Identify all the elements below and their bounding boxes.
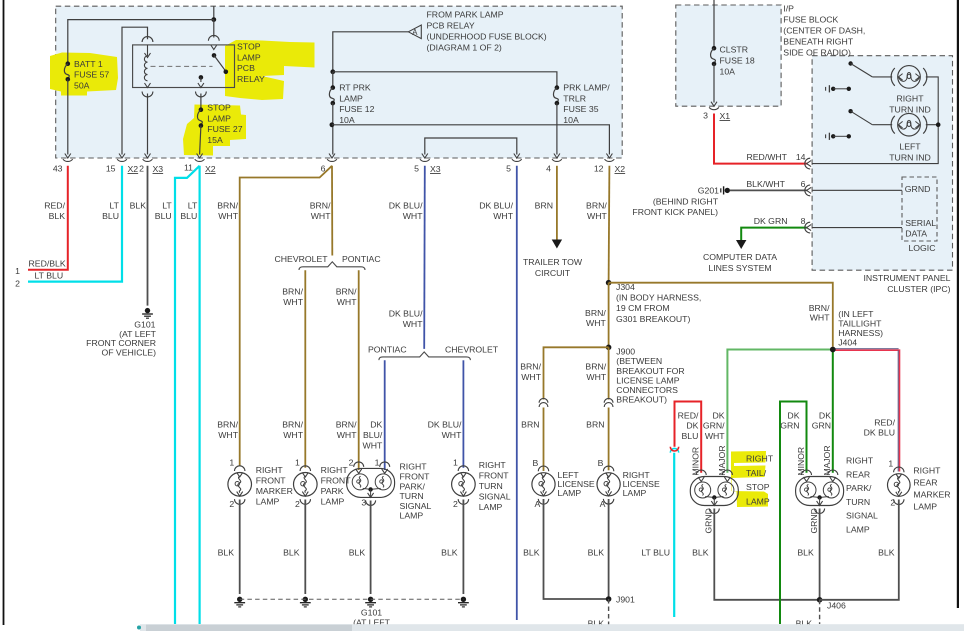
wire: fuse 18 down to pin 3: [713, 64, 715, 103]
svg-text:WHT: WHT: [311, 211, 331, 221]
svg-text:FRONT KICK PANEL): FRONT KICK PANEL): [632, 207, 718, 217]
lamp LEFT TURN IND: [891, 116, 895, 134]
svg-text:FUSE 35: FUSE 35: [563, 104, 598, 114]
svg-text:GRND: GRND: [809, 508, 819, 533]
svg-text:B: B: [598, 458, 604, 468]
svg-text:PCB: PCB: [237, 63, 255, 73]
highlight RIGHT TAIL/STOP LAMP: [731, 451, 768, 507]
svg-text:DK: DK: [370, 420, 382, 430]
lamp RIGHT FRONT MARKER LAMP: [234, 466, 244, 471]
svg-text:PCB RELAY: PCB RELAY: [427, 21, 475, 31]
svg-text:GRN: GRN: [812, 421, 831, 431]
svg-text:BLK: BLK: [692, 547, 709, 557]
wire LT BLU: pin 11 jog branch: [175, 166, 200, 624]
svg-text:LAMP: LAMP: [558, 488, 582, 498]
dual lamp RIGHT REAR PARK/TURN SIGNAL LAMP: [796, 477, 844, 506]
svg-text:RED/BLK: RED/BLK: [29, 258, 66, 268]
pin 15 X2: [119, 154, 125, 159]
wire DK BLU/WHT: pin 5 X3 down to brand split 2: [423, 166, 426, 349]
svg-text:RELAY: RELAY: [237, 74, 265, 84]
svg-text:15: 15: [106, 164, 116, 174]
svg-text:BREAKOUT): BREAKOUT): [616, 395, 667, 405]
svg-text:BLK: BLK: [49, 211, 66, 221]
svg-text:STOP: STOP: [237, 42, 261, 52]
wire DK GRN/WHT: J404 to stop lamp major: [727, 350, 832, 473]
pin 4: [554, 154, 560, 159]
svg-text:8: 8: [801, 216, 806, 226]
svg-text:FROM PARK LAMP: FROM PARK LAMP: [427, 10, 504, 20]
svg-text:X2: X2: [128, 164, 139, 174]
wire RED/WHT: pin 3 to IPC pin 14: [714, 114, 807, 164]
svg-text:A: A: [600, 499, 606, 509]
svg-text:HARNESS): HARNESS): [838, 328, 883, 338]
wire: pin 8 to SERIAL DATA logic: [812, 227, 902, 229]
junction to PRK LAMP/TRLR fuse branch: [330, 69, 335, 74]
fuse F18 CLSTR 10A: [712, 46, 717, 51]
svg-text:G101: G101: [361, 608, 382, 618]
svg-text:RIGHT: RIGHT: [746, 454, 774, 464]
wire RED/DK BLU: connector up and over to stop lamp minor: [675, 402, 702, 473]
svg-text:MINOR: MINOR: [796, 447, 806, 476]
svg-text:WHT: WHT: [810, 313, 830, 323]
svg-text:(BEHIND RIGHT: (BEHIND RIGHT: [653, 197, 719, 207]
svg-text:BLU: BLU: [681, 431, 698, 441]
svg-text:PARK/: PARK/: [846, 483, 872, 493]
svg-text:2: 2: [15, 278, 20, 288]
svg-text:(BETWEEN: (BETWEEN: [616, 356, 662, 366]
wire: BATT fuse down to pin 43: [67, 79, 69, 154]
svg-text:GRN: GRN: [780, 421, 799, 431]
ground (front marker): [237, 597, 242, 602]
svg-text:1: 1: [375, 458, 380, 468]
svg-text:11: 11: [184, 163, 193, 173]
svg-text:LAMP: LAMP: [237, 52, 261, 62]
pin 43: [65, 154, 71, 159]
svg-text:RT PRK: RT PRK: [339, 83, 371, 93]
svg-text:BLK: BLK: [349, 547, 366, 557]
svg-text:LT: LT: [188, 201, 198, 211]
svg-text:FRONT: FRONT: [400, 472, 431, 482]
wire BLK: front marker to ground bus: [239, 500, 241, 595]
lamp RIGHT FRONT TURN SIGNAL LAMP: [458, 466, 468, 471]
svg-text:TAILLIGHT: TAILLIGHT: [838, 319, 882, 329]
junction at feed split: [211, 17, 216, 22]
svg-text:WHT: WHT: [363, 440, 383, 450]
wire BLK: rear park/turn ground to J406: [819, 509, 821, 600]
svg-text:LT: LT: [162, 201, 172, 211]
wire BRN/WHT: J900 branch to left license lamp: [544, 347, 609, 399]
brace split 2: [379, 352, 471, 360]
wire BRN: connector to left license lamp: [543, 408, 545, 472]
IPC right turn indicator switch: [848, 61, 852, 65]
svg-text:B: B: [533, 458, 539, 468]
svg-text:A: A: [535, 499, 541, 509]
svg-text:CLSTR: CLSTR: [720, 44, 748, 54]
svg-text:J406: J406: [827, 601, 846, 611]
svg-text:BLK: BLK: [130, 201, 147, 211]
page left border: [3, 0, 5, 625]
wire BRN/WHT: J900 down to right license: [608, 347, 610, 399]
wire LT BLU: pin 11 straight down: [199, 166, 201, 624]
svg-text:1: 1: [229, 458, 234, 468]
svg-text:LAMP: LAMP: [339, 93, 363, 103]
actuator symbol left: [825, 134, 827, 138]
svg-text:I/P: I/P: [783, 3, 794, 13]
svg-text:SIGNAL: SIGNAL: [479, 491, 511, 501]
highlight STOP LAMP PCB RELAY: [225, 40, 315, 100]
wire: branch to fuse 35: [333, 72, 557, 86]
wire BLK: J406 off-page dashed: [819, 600, 821, 624]
wire BLK: pin 2 to ground G101: [147, 166, 149, 306]
wire: lower branch to pin 12: [332, 125, 610, 155]
lamp RIGHT FRONT PARK LAMP: [300, 466, 310, 471]
fuse F27 STOP LAMP 15A: [199, 107, 204, 112]
ground (front park): [303, 597, 308, 602]
wire BLK: J901 off-page (dashed): [608, 599, 610, 626]
svg-text:19 CM FROM: 19 CM FROM: [616, 303, 670, 313]
svg-text:FUSE 18: FUSE 18: [720, 55, 755, 65]
svg-text:BLK: BLK: [797, 547, 814, 557]
svg-text:(IN LEFT: (IN LEFT: [838, 309, 874, 319]
svg-text:14: 14: [796, 152, 806, 162]
wire: fuse12 down to pin 6 with lower branch: [332, 103, 334, 154]
svg-text:RED/WHT: RED/WHT: [746, 152, 787, 162]
svg-text:3: 3: [361, 498, 366, 508]
svg-text:TURN: TURN: [846, 497, 870, 507]
wire BLK: rear marker to J406: [820, 500, 899, 600]
svg-text:WHT: WHT: [705, 431, 725, 441]
svg-text:FUSE 57: FUSE 57: [74, 70, 109, 80]
pin 3 X1: [711, 102, 717, 107]
svg-text:DK GRN: DK GRN: [754, 216, 788, 226]
svg-text:WHT: WHT: [586, 372, 606, 382]
svg-text:X1: X1: [720, 111, 731, 121]
svg-text:BLK: BLK: [283, 547, 300, 557]
highlight BATT 1 FUSE 57: [50, 53, 118, 96]
svg-text:10A: 10A: [563, 115, 579, 125]
svg-text:BATT 1: BATT 1: [74, 59, 103, 69]
svg-text:10A: 10A: [339, 115, 355, 125]
svg-text:SIGNAL: SIGNAL: [846, 511, 878, 521]
svg-text:PONTIAC: PONTIAC: [368, 344, 407, 354]
pin 5: [514, 154, 520, 159]
svg-text:WHT: WHT: [283, 297, 303, 307]
svg-text:BRN/: BRN/: [585, 362, 606, 372]
svg-text:DK: DK: [686, 421, 698, 431]
underhood fuse block box: [56, 6, 623, 158]
wire: from A to RT PRK fuse feed: [333, 32, 409, 71]
svg-text:FUSE 12: FUSE 12: [339, 104, 374, 114]
svg-text:PARK: PARK: [321, 486, 344, 496]
svg-text:LICENSE LAMP: LICENSE LAMP: [616, 375, 679, 385]
svg-text:STOP: STOP: [207, 103, 231, 113]
junction J901: [606, 596, 612, 602]
svg-text:5: 5: [414, 164, 419, 174]
inline connector LT BLU to RED/DK BLU: [670, 448, 678, 452]
svg-text:WHT: WHT: [586, 318, 606, 328]
svg-text:WHT: WHT: [337, 297, 357, 307]
wire BRN/WHT: pin 12 down to J304: [608, 166, 611, 283]
junction J900: [606, 345, 612, 351]
ground (front park/turn): [368, 597, 373, 602]
svg-text:BLU: BLU: [102, 211, 119, 221]
svg-text:4: 4: [546, 164, 551, 174]
svg-text:3: 3: [703, 111, 708, 121]
svg-text:LAMP: LAMP: [400, 511, 424, 521]
relay switch blade: [212, 53, 217, 58]
svg-text:WHT: WHT: [403, 319, 423, 329]
pin 6: [329, 154, 335, 159]
svg-text:1: 1: [295, 458, 300, 468]
svg-text:CIRCUIT: CIRCUIT: [535, 268, 571, 278]
svg-text:BLU: BLU: [180, 211, 197, 221]
svg-text:OF VEHICLE): OF VEHICLE): [101, 347, 156, 357]
wire DK GRN: from bottom up and over to rear park/turn minor: [780, 402, 807, 625]
dual lamp RIGHT FRONT PARK/TURN SIGNAL LAMP: [347, 468, 395, 497]
svg-text:BLK: BLK: [878, 547, 895, 557]
svg-text:DK: DK: [713, 410, 725, 420]
svg-text:RED/: RED/: [678, 410, 699, 420]
svg-text:(DIAGRAM 1 OF 2): (DIAGRAM 1 OF 2): [427, 43, 502, 53]
svg-text:WHT: WHT: [587, 211, 607, 221]
wire BRN/WHT: pin 6 down to brand split: [331, 166, 333, 256]
svg-text:BREAKOUT FOR: BREAKOUT FOR: [616, 366, 684, 376]
wire LT BLU: pin 15 to connector 2: [28, 166, 122, 282]
svg-text:G301 BREAKOUT): G301 BREAKOUT): [616, 314, 690, 324]
svg-text:DK BLU/: DK BLU/: [428, 420, 462, 430]
wire: coil top terminal up and left to pin 15: [147, 45, 149, 56]
svg-text:2: 2: [229, 499, 234, 509]
svg-text:GRND: GRND: [905, 184, 931, 194]
wire BLK: left license to J901: [544, 499, 609, 599]
svg-text:BENEATH RIGHT: BENEATH RIGHT: [783, 36, 854, 46]
svg-text:RIGHT: RIGHT: [846, 456, 874, 466]
svg-text:DK: DK: [787, 410, 799, 420]
svg-text:WHT: WHT: [403, 211, 423, 221]
wire: bridge between pin 5 X3 and pin 5: [425, 138, 517, 155]
wire BLK: right license down to J901: [608, 499, 610, 599]
svg-text:BRN: BRN: [586, 420, 604, 430]
pin 5 X3: [422, 154, 428, 159]
wire: feed into CLSTR fuse: [713, 0, 715, 47]
svg-text:STOP: STOP: [746, 482, 770, 492]
fuse F35 PRK LAMP/TRLR 10A: [555, 85, 560, 90]
svg-text:BLU/: BLU/: [363, 430, 383, 440]
svg-text:MINOR: MINOR: [691, 447, 701, 476]
svg-text:BRN/: BRN/: [336, 420, 357, 430]
wire BLK: front turn to ground bus: [462, 500, 464, 595]
svg-text:INSTRUMENT PANEL: INSTRUMENT PANEL: [863, 273, 950, 283]
ground (front turn): [461, 597, 466, 602]
svg-text:(IN BODY HARNESS,: (IN BODY HARNESS,: [616, 293, 701, 303]
wire BRN: connector to right license lamp: [608, 408, 610, 471]
svg-text:G201: G201: [698, 186, 719, 196]
svg-text:43: 43: [53, 164, 63, 174]
svg-text:MARKER: MARKER: [913, 489, 950, 499]
svg-text:LAMP: LAMP: [623, 488, 647, 498]
page right border: [957, 0, 959, 608]
svg-text:J901: J901: [616, 594, 635, 604]
wire DK BLU/WHT: pontiac branch to park/turn lamp pin 1: [384, 360, 386, 470]
svg-text:BRN/: BRN/: [585, 308, 606, 318]
lamp RIGHT LICENSE LAMP: [603, 466, 613, 471]
svg-text:BLK: BLK: [588, 547, 605, 557]
junction lower branch: [330, 122, 335, 127]
svg-text:BRN/: BRN/: [809, 303, 830, 313]
svg-text:LAMP: LAMP: [746, 496, 770, 506]
fuse F12 RT PRK LAMP 10A: [332, 72, 334, 86]
wire: feed from top into relay and BATT fuse: [213, 6, 215, 19]
svg-text:10A: 10A: [720, 66, 736, 76]
wire: pin 6 to GRND logic: [812, 189, 902, 191]
junction J304: [606, 280, 612, 286]
svg-text:CHEVROLET: CHEVROLET: [445, 344, 499, 354]
svg-text:BRN/: BRN/: [520, 362, 541, 372]
svg-text:FUSE BLOCK: FUSE BLOCK: [783, 14, 838, 24]
wire BLK: stop lamp ground to J406: [714, 509, 819, 600]
svg-text:X2: X2: [205, 164, 216, 174]
wire: fuse 27 to pin 11: [200, 126, 201, 155]
svg-text:X2: X2: [615, 164, 626, 174]
svg-text:FUSE 27: FUSE 27: [207, 124, 242, 134]
svg-text:RED/: RED/: [44, 201, 65, 211]
svg-text:SIGNAL: SIGNAL: [400, 501, 432, 511]
svg-text:PONTIAC: PONTIAC: [342, 254, 381, 264]
svg-text:CHEVROLET: CHEVROLET: [275, 254, 329, 264]
junction of turn lamp returns: [926, 124, 938, 126]
svg-text:LAMP: LAMP: [321, 497, 345, 507]
svg-text:TURN IND: TURN IND: [889, 153, 931, 163]
svg-text:1: 1: [453, 458, 458, 468]
svg-text:COMPUTER DATA: COMPUTER DATA: [703, 252, 777, 262]
svg-text:SIDE OF RADIO): SIDE OF RADIO): [783, 47, 851, 57]
svg-text:2: 2: [139, 164, 144, 174]
svg-text:BLK: BLK: [218, 547, 235, 557]
svg-text:REAR: REAR: [913, 477, 937, 487]
wire: relay output to STOP LAMP fuse: [196, 92, 207, 97]
wire DK GRN: J404 down to rear park/turn major: [832, 350, 834, 473]
svg-text:CLUSTER (IPC): CLUSTER (IPC): [887, 284, 950, 294]
ground G201 symbol: [720, 188, 722, 192]
svg-text:BLU: BLU: [155, 211, 172, 221]
svg-text:BLK: BLK: [441, 547, 458, 557]
svg-text:1: 1: [888, 459, 893, 469]
svg-text:J404: J404: [838, 338, 857, 348]
svg-text:BRN/: BRN/: [310, 201, 331, 211]
svg-text:DK BLU/: DK BLU/: [389, 309, 423, 319]
svg-text:TRLR: TRLR: [563, 93, 586, 103]
svg-text:BRN/: BRN/: [217, 201, 238, 211]
svg-text:2: 2: [295, 499, 300, 509]
svg-text:RIGHT: RIGHT: [321, 465, 349, 475]
svg-text:BRN/: BRN/: [217, 420, 238, 430]
svg-text:RIGHT: RIGHT: [479, 460, 507, 470]
svg-text:DK BLU/: DK BLU/: [389, 201, 423, 211]
svg-text:DK: DK: [819, 410, 831, 420]
svg-text:LAMP: LAMP: [207, 113, 231, 123]
svg-text:SERIAL: SERIAL: [905, 218, 936, 228]
svg-text:BLK/WHT: BLK/WHT: [746, 179, 785, 189]
relay coil: [145, 53, 151, 58]
wire BRN/WHT: J304 to J404 (taillight harness): [609, 283, 833, 347]
svg-text:RIGHT: RIGHT: [256, 465, 284, 475]
wire BLK/WHT: G201 to IPC pin 6: [730, 189, 807, 191]
svg-text:BRN/: BRN/: [282, 287, 303, 297]
svg-text:WHT: WHT: [218, 430, 238, 440]
wire DK GRN: pin 8 to computer data lines: [741, 228, 807, 240]
svg-text:5: 5: [506, 164, 511, 174]
svg-text:TURN: TURN: [479, 481, 503, 491]
svg-text:FRONT: FRONT: [256, 476, 287, 486]
svg-text:BRN/: BRN/: [282, 420, 303, 430]
svg-text:LAMP: LAMP: [256, 497, 280, 507]
svg-text:LT BLU: LT BLU: [641, 547, 670, 557]
lamp RIGHT REAR MARKER LAMP: [894, 467, 904, 472]
wire DK BLU/WHT: pin 5 down: [516, 166, 518, 620]
wire: fuse35 down to pin 4: [556, 103, 558, 154]
svg-text:2: 2: [890, 498, 895, 508]
inline connector right license: [604, 398, 613, 402]
ground G101: [145, 308, 150, 313]
svg-text:X3: X3: [430, 164, 441, 174]
svg-text:LOGIC: LOGIC: [908, 243, 935, 253]
svg-text:FRONT: FRONT: [479, 471, 510, 481]
instrument panel cluster IPC box: [812, 56, 952, 271]
svg-text:MARKER: MARKER: [256, 486, 293, 496]
svg-text:(UNDERHOOD FUSE BLOCK): (UNDERHOOD FUSE BLOCK): [427, 32, 547, 42]
svg-text:WHT: WHT: [218, 211, 238, 221]
pin 12 X2: [606, 154, 612, 159]
wire RED/BLK: pin 43 to connector 1: [28, 166, 68, 270]
wire LT BLU: center run up from bottom: [673, 453, 675, 617]
svg-text:DK BLU: DK BLU: [864, 428, 895, 438]
svg-text:50A: 50A: [74, 80, 90, 90]
svg-text:J900: J900: [616, 347, 635, 357]
wire RED/DK BLU: J404 to right rear marker (two-tone): [833, 348, 899, 350]
ground bus dashed link: [240, 598, 464, 600]
actuator symbol right: [825, 87, 827, 91]
wire BRN/WHT: pin 6 jog branch to right front marker lamp: [240, 166, 332, 466]
svg-text:PARK/: PARK/: [400, 481, 426, 491]
svg-text:LAMP: LAMP: [913, 501, 937, 511]
svg-text:TRAILER TOW: TRAILER TOW: [523, 257, 583, 267]
svg-text:BRN: BRN: [535, 201, 553, 211]
lamp LEFT LICENSE LAMP: [538, 466, 548, 471]
junction J406: [817, 597, 823, 603]
svg-text:BRN/: BRN/: [586, 201, 607, 211]
wire BRN/WHT: chevrolet branch to right front park lamp: [304, 270, 306, 468]
bottom scrollbar: [140, 624, 964, 631]
IPC left turn indicator switch: [848, 109, 852, 113]
svg-text:WHT: WHT: [283, 430, 303, 440]
svg-text:RIGHT: RIGHT: [400, 462, 428, 472]
svg-text:DK BLU/: DK BLU/: [479, 201, 513, 211]
svg-text:2: 2: [349, 458, 354, 468]
relay box STOP LAMP PCB RELAY: [133, 45, 235, 88]
svg-text:LINES SYSTEM: LINES SYSTEM: [708, 263, 771, 273]
svg-text:DATA: DATA: [905, 229, 927, 239]
svg-text:BLK: BLK: [523, 547, 540, 557]
wire: feed down into relay switch: [213, 20, 215, 38]
svg-text:RIGHT: RIGHT: [896, 94, 924, 104]
svg-text:LEFT: LEFT: [899, 142, 921, 152]
svg-text:WHT: WHT: [493, 211, 513, 221]
relay switch output contact: [199, 75, 204, 80]
lamp RIGHT TURN IND: [891, 68, 895, 86]
I/P fuse block box: [676, 5, 781, 106]
svg-text:LT: LT: [110, 201, 120, 211]
pin 2 X3: [145, 154, 151, 159]
